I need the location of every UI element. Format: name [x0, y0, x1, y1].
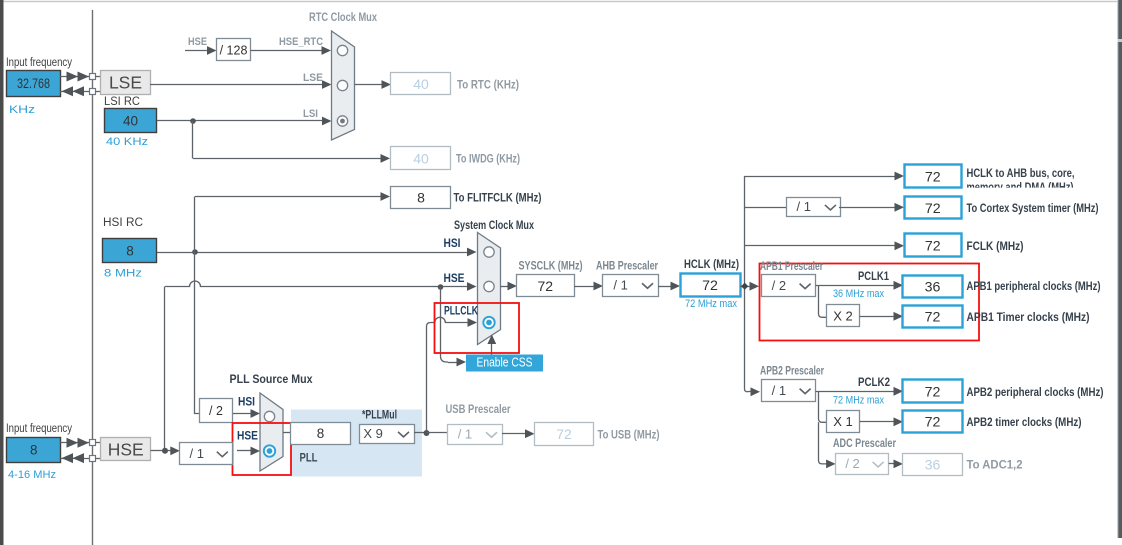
svg-text:FCLK (MHz): FCLK (MHz) [967, 241, 1024, 253]
svg-text:40: 40 [413, 76, 429, 92]
svg-text:Input frequency: Input frequency [6, 57, 72, 69]
svg-text:HSI RC: HSI RC [103, 217, 143, 229]
svg-text:ADC Prescaler: ADC Prescaler [833, 438, 896, 450]
svg-text:HSI: HSI [238, 397, 255, 409]
svg-text:/ 1: / 1 [772, 383, 786, 398]
svg-text:HSE_RTC: HSE_RTC [279, 36, 323, 48]
svg-text:8 MHz: 8 MHz [104, 268, 142, 280]
svg-text:PLLCLK: PLLCLK [444, 306, 479, 318]
svg-text:/ 1: / 1 [613, 278, 627, 293]
svg-text:/ 128: / 128 [220, 44, 248, 58]
svg-text:/ 1: / 1 [458, 427, 472, 442]
svg-text:8: 8 [417, 189, 425, 205]
svg-text:HSI: HSI [444, 238, 461, 250]
svg-text:APB1 Timer clocks (MHz): APB1 Timer clocks (MHz) [967, 312, 1090, 324]
svg-text:System Clock Mux: System Clock Mux [454, 220, 534, 232]
svg-text:HSE: HSE [237, 431, 258, 443]
svg-text:To Cortex System timer (MHz): To Cortex System timer (MHz) [967, 203, 1099, 215]
svg-text:USB Prescaler: USB Prescaler [446, 404, 511, 416]
svg-text:APB1 peripheral clocks (MHz): APB1 peripheral clocks (MHz) [967, 281, 1101, 293]
svg-text:72 MHz max: 72 MHz max [833, 395, 884, 407]
svg-text:/ 2: / 2 [209, 404, 223, 418]
svg-text:8: 8 [317, 426, 325, 441]
svg-text:/ 1: / 1 [797, 199, 811, 214]
svg-text:APB2 Prescaler: APB2 Prescaler [760, 366, 824, 378]
svg-text:HSE: HSE [444, 273, 465, 285]
svg-text:APB2 timer clocks (MHz): APB2 timer clocks (MHz) [967, 417, 1082, 429]
svg-text:SYSCLK (MHz): SYSCLK (MHz) [519, 261, 583, 273]
svg-text:X 1: X 1 [833, 414, 853, 429]
svg-text:KHz: KHz [9, 104, 35, 116]
svg-text:PLL Source Mux: PLL Source Mux [230, 374, 314, 386]
svg-text:LSE: LSE [109, 73, 142, 93]
svg-text:LSE: LSE [303, 72, 323, 84]
svg-text:72: 72 [925, 238, 941, 254]
svg-text:72: 72 [925, 414, 941, 430]
svg-text:HSE: HSE [108, 440, 144, 460]
svg-text:72: 72 [537, 278, 553, 294]
svg-text:AHB Prescaler: AHB Prescaler [596, 261, 658, 273]
svg-text:HCLK (MHz): HCLK (MHz) [684, 259, 739, 271]
svg-text:To IWDG (KHz): To IWDG (KHz) [456, 154, 520, 166]
svg-text:72: 72 [925, 169, 941, 185]
svg-text:72: 72 [925, 384, 941, 400]
svg-text:*PLLMul: *PLLMul [362, 410, 397, 422]
svg-text:72 MHz max: 72 MHz max [685, 298, 737, 310]
svg-text:PCLK2: PCLK2 [858, 377, 890, 389]
svg-text:X 2: X 2 [833, 309, 853, 324]
svg-text:/ 2: / 2 [845, 456, 859, 471]
svg-text:PLL: PLL [300, 451, 318, 465]
svg-text:X 9: X 9 [363, 426, 383, 441]
svg-text:To ADC1,2: To ADC1,2 [967, 460, 1023, 472]
svg-text:72: 72 [702, 278, 718, 294]
svg-text:72: 72 [925, 309, 941, 325]
svg-text:72: 72 [925, 201, 941, 217]
svg-text:RTC Clock Mux: RTC Clock Mux [309, 12, 377, 24]
svg-text:/ 1: / 1 [190, 446, 204, 461]
svg-text:APB1 Prescaler: APB1 Prescaler [760, 261, 823, 273]
svg-text:To RTC (KHz): To RTC (KHz) [457, 80, 519, 92]
svg-text:To USB (MHz): To USB (MHz) [598, 430, 660, 442]
svg-text:/ 2: / 2 [772, 278, 786, 293]
svg-text:PCLK1: PCLK1 [858, 271, 889, 283]
svg-text:To FLITFCLK (MHz): To FLITFCLK (MHz) [454, 193, 542, 205]
svg-text:4-16 MHz: 4-16 MHz [8, 469, 56, 481]
svg-text:40: 40 [413, 150, 429, 166]
svg-text:36 MHz max: 36 MHz max [833, 288, 884, 300]
svg-text:32.768: 32.768 [17, 76, 50, 91]
svg-text:36: 36 [925, 456, 941, 472]
svg-text:8: 8 [126, 244, 134, 259]
svg-text:8: 8 [30, 443, 38, 458]
svg-text:40 KHz: 40 KHz [106, 136, 148, 148]
svg-text:LSI RC: LSI RC [104, 96, 140, 108]
svg-text:40: 40 [123, 114, 138, 129]
svg-text:72: 72 [556, 426, 572, 442]
svg-text:LSI: LSI [303, 108, 318, 120]
svg-text:36: 36 [925, 280, 941, 296]
svg-text:HCLK to AHB bus, core,: HCLK to AHB bus, core, [967, 168, 1075, 180]
svg-text:Input frequency: Input frequency [6, 423, 72, 435]
svg-text:Enable CSS: Enable CSS [477, 355, 533, 370]
svg-text:HSE: HSE [188, 36, 207, 48]
svg-text:APB2 peripheral clocks (MHz): APB2 peripheral clocks (MHz) [967, 387, 1104, 399]
